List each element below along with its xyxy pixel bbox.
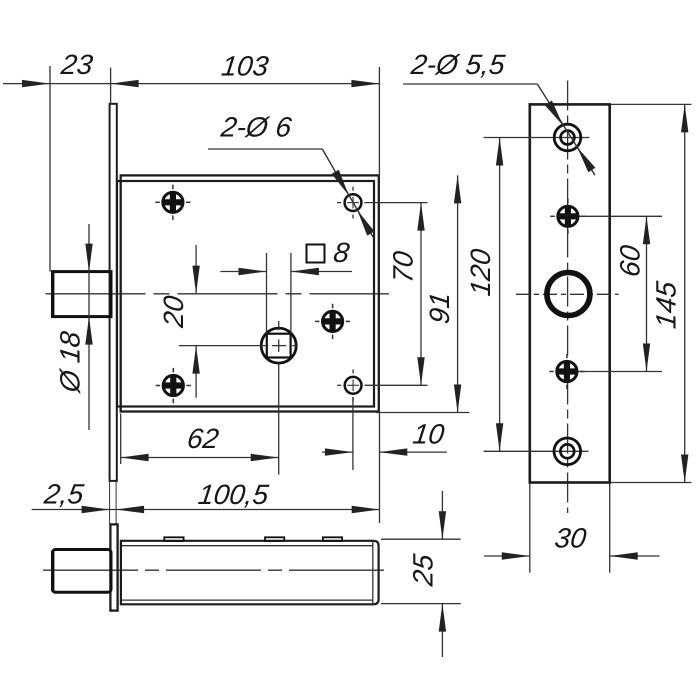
- cylinder hole: [516, 273, 619, 316]
- faceplate front view: [530, 104, 610, 482]
- svg-text:60: 60: [615, 243, 646, 278]
- faceplate cross-section: [110, 524, 117, 610]
- svg-text:70: 70: [388, 249, 419, 284]
- svg-text:2,5: 2,5: [42, 478, 86, 509]
- extension line case top-right: [378, 67, 380, 175]
- latch bolt bottom view: [53, 550, 112, 593]
- callout 2-D5,5 leader and text: [403, 49, 595, 175]
- dimension 2,5 and 100,5: [32, 478, 380, 513]
- lock case cover plate outline: [117, 181, 374, 407]
- dimension D18 bolt: [55, 224, 93, 430]
- extension line upper screw: [580, 215, 663, 217]
- lock case outer outline (front view): [121, 175, 379, 411]
- lock case bolt axis centerline: [46, 293, 390, 295]
- extension line case bottom-left: [120, 414, 122, 465]
- faceplate axis centerline: [567, 81, 569, 514]
- extension line case bottom: [376, 412, 469, 414]
- extension lines faceplate thickness: [110, 481, 117, 524]
- svg-text:25: 25: [408, 552, 439, 588]
- dimension 60: [615, 216, 651, 371]
- hole 2-D6 bottom-right: [337, 369, 361, 401]
- svg-text:100,5: 100,5: [196, 479, 270, 510]
- svg-text:30: 30: [553, 523, 588, 554]
- svg-text:2-Ø 5,5: 2-Ø 5,5: [409, 49, 508, 80]
- screw upper-middle: [550, 199, 585, 234]
- dimension 25: [381, 491, 461, 657]
- mounting tab 2: [265, 537, 284, 541]
- screw center: [315, 304, 350, 339]
- extension line bottom hole: [365, 384, 428, 386]
- svg-text:103: 103: [220, 51, 271, 82]
- dimension text 103: [220, 51, 271, 82]
- latch bolt (side view): [53, 272, 112, 317]
- dimension 70: [388, 203, 425, 386]
- extension line hole bottom-right: [352, 397, 354, 470]
- screw top-left: [155, 185, 190, 220]
- dimension 145: [651, 104, 689, 482]
- countersunk hole bottom: [484, 438, 589, 465]
- extension line case right-down: [379, 413, 381, 523]
- dimension line 23-103: [3, 80, 379, 87]
- mounting tab 1: [164, 537, 183, 541]
- svg-text:Ø 18: Ø 18: [55, 329, 86, 395]
- svg-text:23: 23: [59, 49, 95, 80]
- hole 2-D6 top-right: [337, 187, 361, 219]
- faceplate edge (side strip): [110, 104, 117, 481]
- countersunk hole top: [484, 124, 590, 151]
- dimension 10: [322, 418, 447, 455]
- extension line faceplate top-right: [611, 103, 692, 105]
- dimension 120: [465, 138, 503, 452]
- svg-text:10: 10: [411, 418, 446, 449]
- mounting tab 3: [323, 537, 342, 541]
- extension line faceplate bottom-right: [611, 482, 692, 484]
- lock case bottom view: [121, 541, 379, 605]
- dimension 62: [121, 423, 279, 461]
- extension line bolt tip: [49, 66, 51, 272]
- svg-text:120: 120: [465, 247, 496, 298]
- svg-text:145: 145: [651, 279, 682, 330]
- dimension 20: [158, 245, 200, 398]
- svg-text:20: 20: [158, 294, 189, 330]
- dimension square 8: [220, 237, 352, 334]
- svg-text:62: 62: [186, 423, 221, 454]
- extension line lower screw: [579, 371, 663, 373]
- spindle follower square hole: [179, 321, 297, 475]
- screw lower-middle: [549, 354, 584, 389]
- dimension 91: [424, 175, 461, 412]
- bottom view centerline: [43, 569, 385, 571]
- callout 2-D6 leader and text: [208, 112, 374, 237]
- screw bottom-left: [156, 368, 191, 403]
- extension line top hole: [365, 202, 428, 204]
- svg-text:91: 91: [424, 291, 455, 326]
- dimension 30: [484, 484, 660, 573]
- dimension text 23: [59, 49, 95, 80]
- extension line faceplate top: [110, 68, 112, 104]
- svg-text:2-Ø 6: 2-Ø 6: [218, 112, 293, 143]
